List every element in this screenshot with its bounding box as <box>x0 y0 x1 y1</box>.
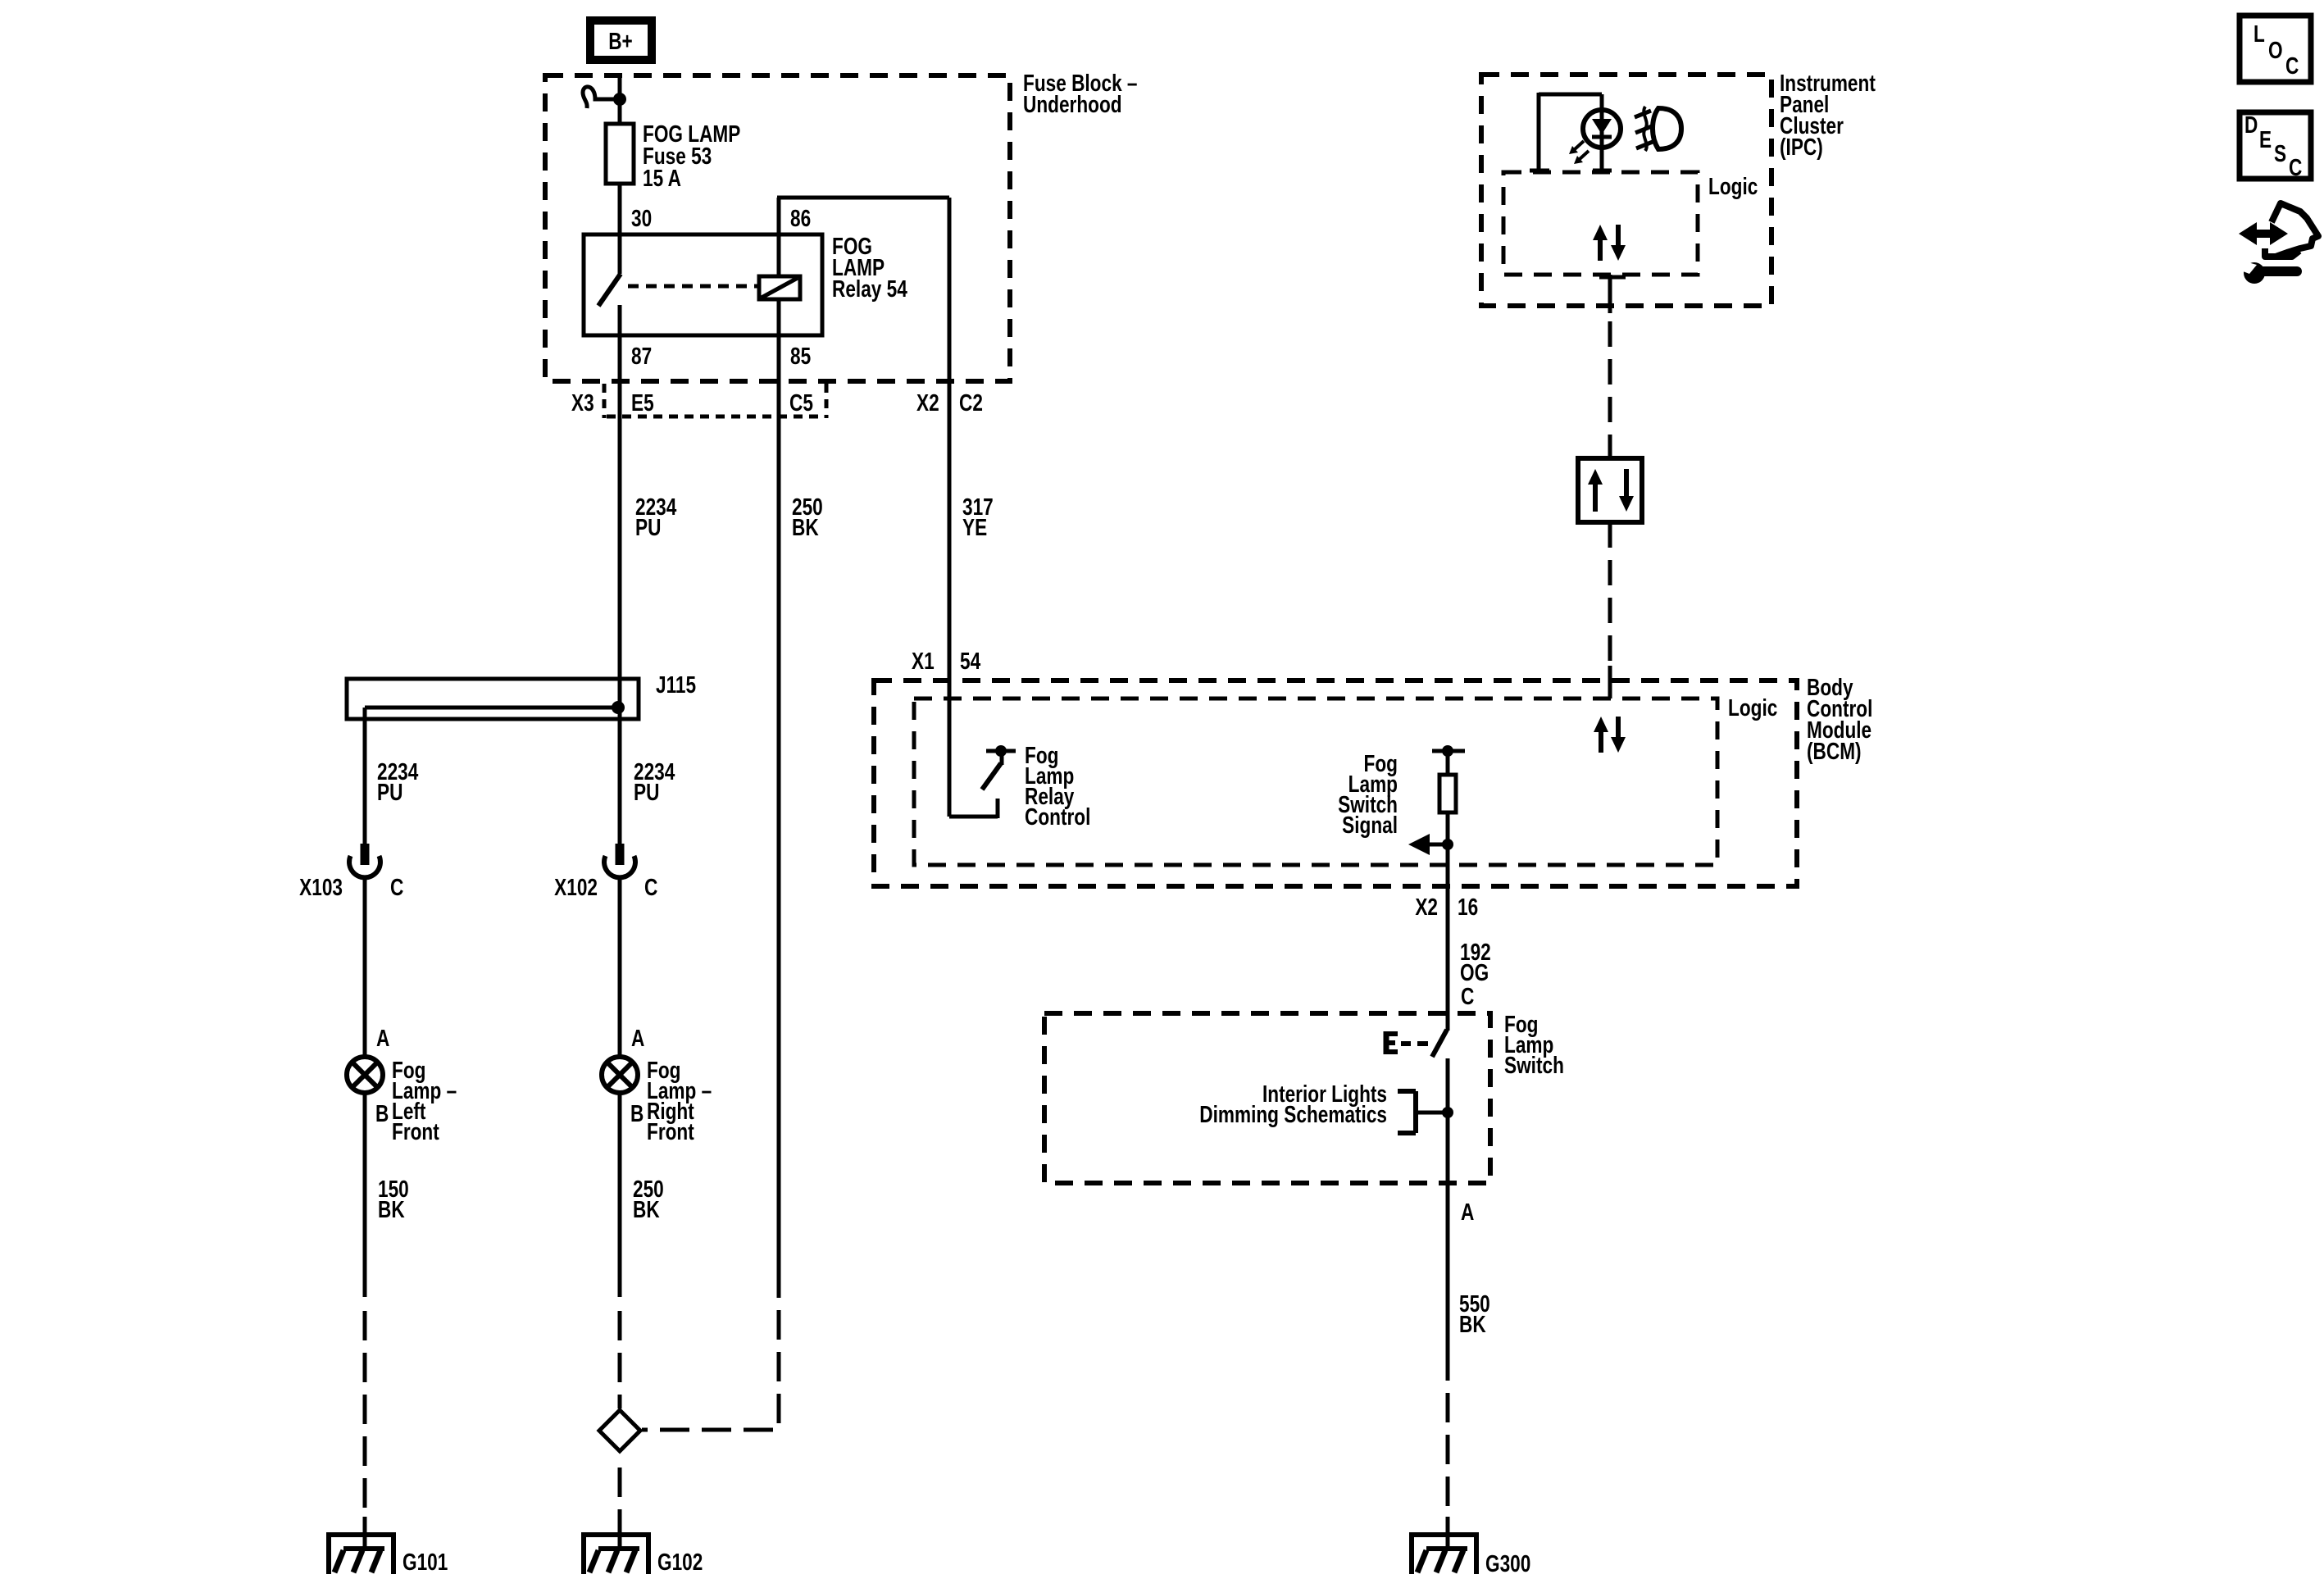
LED indicator wiring <box>1530 93 1612 171</box>
svg-text:A: A <box>1461 1198 1475 1225</box>
relay K54 FOG LAMP Relay box <box>584 234 822 335</box>
relay actuation dashed link <box>628 284 757 289</box>
fuse block underhood box <box>545 75 1010 381</box>
splice bus wire <box>365 706 618 710</box>
label Body Control Module (BCM) <box>1807 673 1872 764</box>
serial data dashed wire (lower) <box>1608 522 1612 661</box>
label Instrument Panel Cluster (IPC) <box>1780 69 1876 160</box>
wire X103 to left lamp <box>363 877 367 1057</box>
svg-text:C: C <box>644 873 658 900</box>
wire left lamp B down (150 BK) <box>363 1093 367 1297</box>
fog lamp relay control switch <box>949 680 1016 818</box>
svg-text:A: A <box>376 1024 390 1051</box>
svg-text:X102: X102 <box>554 873 598 900</box>
svg-text:BK: BK <box>792 513 819 540</box>
svg-text:X103: X103 <box>299 873 343 900</box>
IPC logic arrows <box>1593 225 1626 261</box>
splice diamond <box>599 1410 640 1451</box>
wire switch signal down to X2 16 <box>1446 844 1450 1013</box>
label Fog Lamp Switch <box>1504 1010 1564 1078</box>
wire relay control (317 YE) <box>948 198 952 680</box>
svg-text:X2: X2 <box>916 389 939 416</box>
svg-text:B: B <box>375 1099 389 1126</box>
svg-text:Front: Front <box>647 1117 694 1144</box>
svg-text:C: C <box>390 873 404 900</box>
svg-text:Front: Front <box>392 1117 439 1144</box>
ground G101 <box>326 1517 396 1574</box>
svg-text:G101: G101 <box>402 1548 448 1575</box>
fog lamp switch box <box>1044 1013 1490 1183</box>
fog lamp indicator icon <box>1635 107 1681 151</box>
label Fog Lamp Switch Signal <box>1338 749 1398 838</box>
svg-text:X1: X1 <box>912 647 935 674</box>
svg-text:Signal: Signal <box>1342 811 1398 838</box>
fog lamp left front <box>347 1057 383 1093</box>
dashed wire to diamond splice <box>618 1311 622 1408</box>
svg-text:S: S <box>2274 139 2286 166</box>
svg-text:C2: C2 <box>959 389 983 416</box>
svg-text:X3: X3 <box>571 389 594 416</box>
svg-text:E: E <box>2259 125 2272 152</box>
dimming symbol E <box>1385 1031 1428 1054</box>
svg-text:BK: BK <box>378 1195 405 1222</box>
svg-text:G300: G300 <box>1485 1549 1530 1577</box>
IPC logic box <box>1503 172 1698 275</box>
signal arrow <box>1408 834 1453 855</box>
wire pin 85 down (250 BK) <box>777 299 781 1268</box>
label 2234 PU (left branch) <box>377 758 419 805</box>
wire through J115 down to X102 <box>618 680 622 844</box>
wire B+ to fuse to relay pin 30 <box>618 75 622 234</box>
svg-text:30: 30 <box>631 204 652 231</box>
ground G300 <box>1409 1517 1479 1574</box>
svg-text:Logic: Logic <box>1728 694 1777 721</box>
service icon: double arrow, pointer outline, wrench <box>2239 203 2318 284</box>
svg-text:C: C <box>1461 982 1475 1009</box>
label 317 YE <box>962 493 994 540</box>
svg-text:86: 86 <box>790 204 811 231</box>
wire 86 to X2 C2 (horizontal) <box>777 196 949 200</box>
power symbol B+ <box>590 20 652 60</box>
label 192 OG <box>1460 938 1491 985</box>
LED light arrows <box>1569 141 1589 164</box>
label 2234 PU <box>635 493 677 540</box>
svg-text:Logic: Logic <box>1708 172 1758 199</box>
label Interior Lights Dimming Schematics <box>1199 1080 1387 1127</box>
svg-text:C5: C5 <box>789 389 813 416</box>
wire X102 to right lamp <box>618 877 622 1057</box>
svg-text:Control: Control <box>1025 803 1090 830</box>
svg-text:54: 54 <box>960 647 981 674</box>
fog lamp switch signal pullup resistor <box>1432 745 1465 844</box>
BCM outer box <box>874 680 1797 886</box>
dashed wire to G101 <box>363 1311 367 1548</box>
svg-text:BK: BK <box>1459 1310 1486 1337</box>
LOC icon box <box>2240 16 2311 82</box>
svg-text:87: 87 <box>631 342 652 369</box>
fog lamp switch contact <box>1432 1013 1448 1183</box>
connector X103 <box>349 844 380 877</box>
wire pin 86 <box>777 198 781 276</box>
connector X3 / E5 C5 dashed bracket <box>604 384 826 418</box>
BCM logic box <box>914 698 1717 865</box>
svg-text:BK: BK <box>633 1195 660 1222</box>
svg-text:Underhood: Underhood <box>1023 90 1122 117</box>
splice J115 box <box>347 679 639 719</box>
svg-text:B: B <box>630 1099 644 1126</box>
label FOG LAMP Fuse 53 15 A <box>643 120 740 191</box>
IPC box <box>1481 75 1771 306</box>
wire switch to ground (550 BK) <box>1446 1183 1450 1381</box>
label Fog Lamp Relay Control <box>1025 741 1090 830</box>
svg-text:15 A: 15 A <box>643 164 681 191</box>
fog lamp right front <box>602 1057 638 1093</box>
LED indicator <box>1583 110 1621 148</box>
svg-text:(BCM): (BCM) <box>1807 737 1862 764</box>
label 2234 PU (right branch) <box>634 758 675 805</box>
svg-text:L: L <box>2254 20 2265 47</box>
svg-text:O: O <box>2268 36 2283 63</box>
serial data dashed wire (upper) <box>1608 321 1612 458</box>
fuse FOG LAMP Fuse 53 15 A <box>606 124 634 184</box>
dashed wire diamond to G102 <box>618 1468 622 1548</box>
wire left branch to X103 <box>363 708 367 844</box>
svg-text:G102: G102 <box>657 1548 703 1575</box>
svg-text:Switch: Switch <box>1504 1051 1564 1078</box>
wire pin 87 down (2234 PU) <box>618 335 622 680</box>
relay switch contact <box>598 234 621 335</box>
svg-text:A: A <box>631 1024 645 1051</box>
svg-text:B+: B+ <box>608 27 633 54</box>
dashed wire logic to IPC bottom <box>1599 275 1626 313</box>
svg-text:PU: PU <box>634 778 659 805</box>
connector X102 <box>604 844 635 877</box>
label Fog Lamp Left Front <box>392 1056 457 1144</box>
ground G102 <box>581 1517 651 1574</box>
svg-text:Relay 54: Relay 54 <box>832 275 907 302</box>
BCM logic arrows <box>1594 717 1626 753</box>
tick crossing BCM border <box>1608 666 1612 698</box>
wire right lamp B down (250 BK) <box>618 1093 622 1297</box>
svg-text:X2: X2 <box>1415 893 1438 920</box>
DESC icon box <box>2240 111 2311 180</box>
svg-text:J115: J115 <box>656 671 696 698</box>
dashed wire 250 BK to diamond <box>642 1268 779 1430</box>
svg-text:PU: PU <box>635 513 661 540</box>
svg-text:85: 85 <box>790 342 811 369</box>
serial data box arrows <box>1588 469 1634 512</box>
interior lights dimming bracket <box>1398 1091 1453 1133</box>
svg-text:C: C <box>2285 52 2299 79</box>
label 550 BK <box>1459 1290 1490 1337</box>
svg-text:E5: E5 <box>631 389 654 416</box>
label 150 BK <box>378 1175 409 1222</box>
svg-text:16: 16 <box>1458 893 1478 920</box>
label FOG LAMP Relay 54 <box>832 232 907 302</box>
battery feed tap symbol <box>583 87 626 108</box>
svg-text:C: C <box>2289 153 2303 180</box>
svg-text:PU: PU <box>377 778 402 805</box>
svg-text:(IPC): (IPC) <box>1780 133 1823 160</box>
relay coil <box>759 276 800 299</box>
label Fuse Block Underhood <box>1023 69 1138 117</box>
junction dot J115 <box>612 701 625 714</box>
serial data box <box>1578 458 1642 522</box>
label 250 BK (lower) <box>633 1175 664 1222</box>
svg-text:YE: YE <box>962 513 987 540</box>
dashed wire to G300 <box>1446 1393 1450 1548</box>
label 250 BK <box>792 493 823 540</box>
svg-text:D: D <box>2244 111 2258 138</box>
svg-text:Dimming Schematics: Dimming Schematics <box>1199 1100 1387 1127</box>
label Fog Lamp Right Front <box>647 1056 712 1144</box>
